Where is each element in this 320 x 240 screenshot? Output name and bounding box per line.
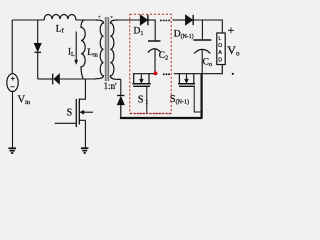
transformer secondary winding [110, 20, 120, 79]
inductor Lm [81, 20, 85, 79]
wire top rail left [12, 19, 44, 21]
svg-text:L: L [219, 36, 222, 42]
wire top rail to load [193, 20, 222, 33]
label 1:n' [104, 81, 117, 92]
wire node down to C2 [154, 20, 156, 41]
label minus [232, 73, 234, 75]
label S(N-1) [170, 94, 189, 106]
wire to D(N-1) [172, 19, 185, 21]
svg-text:A: A [218, 50, 222, 56]
label Lf [56, 25, 64, 35]
wire D1 cathode to node [148, 19, 156, 21]
red dashed box bottom emphasis [130, 113, 171, 115]
label Co [203, 58, 212, 69]
ground (Vin) [8, 148, 16, 153]
transistor S [55, 99, 93, 128]
svg-text:D: D [218, 57, 222, 63]
switch S1 [132, 74, 150, 114]
wire Vin to ground [12, 91, 14, 148]
annotation current IL arrow [75, 32, 78, 65]
node B rail left segment [133, 73, 158, 75]
diode D(N-1) [185, 15, 193, 25]
transformer core [105, 17, 109, 81]
label Lm [87, 48, 98, 59]
wire lower left [38, 78, 53, 80]
svg-text:S: S [67, 108, 73, 119]
diode secondary return (pointing up) [117, 79, 124, 118]
wire lower to primary [60, 78, 97, 80]
transformer primary winding [95, 20, 104, 79]
label IL [68, 47, 75, 59]
capacitor C2 [148, 41, 161, 74]
svg-text:1:n: 1:n [104, 81, 116, 91]
svg-text:O: O [218, 43, 222, 49]
label S [67, 108, 73, 119]
ground (S) [81, 148, 88, 153]
wire Vin stem left [11, 20, 13, 74]
diode series (pointing left) [53, 74, 60, 85]
dots continuation middle [163, 73, 170, 75]
red dashed box multiplier cell [130, 14, 171, 113]
node red dot [154, 72, 158, 76]
inductor Lf [44, 14, 76, 20]
load resistor box [217, 33, 225, 65]
transformer secondary polarity dot [111, 16, 113, 18]
wire secondary top to D1 [117, 19, 141, 21]
source wire of S to ground [84, 120, 86, 148]
wire top rail right of Lf [76, 19, 97, 21]
label Vo [227, 43, 240, 58]
node B rail right segment [174, 65, 223, 74]
transformer primary polarity dot [98, 16, 100, 18]
switch S(N-1) [178, 74, 201, 112]
svg-text:+: + [228, 23, 235, 37]
dots continuation top [160, 19, 170, 21]
wire drop to Co [201, 20, 203, 40]
label C2 [159, 51, 168, 62]
wire bottom rail [120, 74, 202, 119]
label D(N-1) [174, 30, 194, 41]
diode D1 [140, 15, 148, 25]
diode clamp (vertical, pointing down) [34, 20, 41, 79]
label plus [228, 23, 235, 37]
drain wire of S [79, 79, 85, 99]
label Vin [18, 94, 31, 106]
capacitor Co [194, 40, 212, 74]
source Vin [7, 74, 18, 92]
label S1 [138, 95, 149, 107]
label D1 [134, 27, 144, 38]
